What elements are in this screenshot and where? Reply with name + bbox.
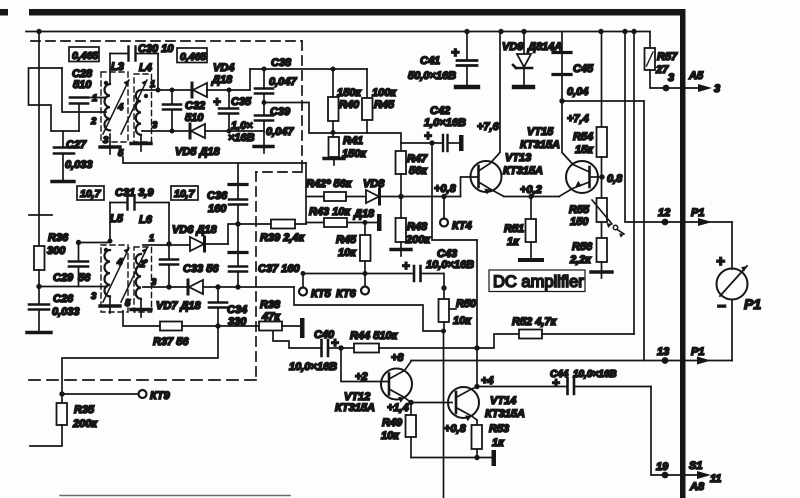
svg-text:27: 27 (655, 64, 669, 76)
wire: C42 to base net (431, 143, 433, 197)
svg-text:+: + (213, 94, 221, 109)
svg-text:10,0×16В: 10,0×16В (289, 361, 337, 373)
capacitor C27 (52, 131, 74, 182)
border: left edge stub (0, 9, 8, 16)
terminal КТ5 (302, 274, 304, 288)
ground R41 (324, 157, 344, 160)
svg-text:R52 4,7к: R52 4,7к (512, 316, 558, 328)
transistor VT15 (559, 101, 600, 197)
dashed block outline 0,465 top (31, 40, 302, 42)
svg-text:R45: R45 (336, 234, 357, 246)
tuning arrow L4 (121, 80, 147, 134)
node: C40/R44 dot (338, 345, 343, 350)
svg-text:R54: R54 (573, 131, 593, 143)
svg-text:10,7: 10,7 (80, 188, 102, 200)
svg-text:+: + (331, 335, 339, 350)
svg-text:КТ315А: КТ315А (503, 165, 543, 177)
transistor VT13 (461, 32, 505, 197)
ground R51 (520, 258, 542, 262)
svg-text:4: 4 (116, 257, 123, 268)
ground L5 (109, 298, 111, 305)
svg-text:10,0×16В: 10,0×16В (573, 369, 617, 380)
svg-text:VT13: VT13 (505, 152, 531, 164)
wire: +0,2 net (504, 196, 559, 198)
svg-text:0,033: 0,033 (65, 159, 93, 171)
node: C38 top dot (262, 67, 267, 72)
svg-text:0,465: 0,465 (180, 51, 206, 63)
svg-text:3: 3 (152, 120, 158, 131)
node: L6 phase dot (144, 259, 148, 263)
svg-text:1: 1 (92, 93, 97, 104)
resistor R44 (341, 344, 477, 353)
svg-text:−: − (717, 298, 726, 315)
svg-text:50,0×16В: 50,0×16В (408, 70, 456, 82)
resistor R57 (645, 32, 703, 89)
svg-text:R42* 56к: R42* 56к (306, 178, 353, 190)
resistor R48 (396, 197, 407, 250)
node: rail junction dots (36, 29, 636, 34)
node: pin 19 dot (662, 472, 669, 479)
resistor R43 (306, 218, 377, 227)
terminal КТ4 (443, 197, 445, 219)
svg-text:L4: L4 (139, 62, 152, 74)
terminal bar R43 (377, 214, 382, 231)
ground L4 (140, 135, 142, 142)
svg-text:C39: C39 (270, 106, 291, 118)
svg-text:R57: R57 (657, 51, 678, 63)
resistor R56 (597, 222, 608, 271)
svg-text:56: 56 (78, 272, 91, 284)
svg-text:C27: C27 (66, 139, 87, 151)
svg-text:510: 510 (185, 112, 204, 124)
arrow pin 19 (697, 471, 711, 479)
svg-text:Д18: Д18 (211, 74, 233, 86)
svg-text:R38: R38 (260, 299, 281, 311)
resistor R55 trimmer (592, 198, 624, 238)
node: R47/R48 dot (398, 194, 403, 199)
capacitor C34 (209, 287, 227, 326)
wire: detector out y69 (250, 68, 367, 70)
node: R40 top dot (331, 67, 336, 72)
node: pin 3 dot (663, 85, 670, 92)
capacitor C37 (229, 224, 247, 287)
arrow P1 pin 12 (698, 218, 712, 226)
svg-text:P1: P1 (744, 296, 761, 312)
tuning arrow L5 (103, 248, 129, 302)
svg-text:4: 4 (117, 102, 124, 113)
svg-text:P1: P1 (691, 346, 704, 358)
svg-text:C42: C42 (430, 105, 450, 117)
svg-text:C30 10: C30 10 (138, 43, 174, 55)
resistor R45 upper (362, 69, 373, 133)
svg-text:+7,6: +7,6 (477, 121, 500, 133)
svg-text:КТ4: КТ4 (452, 220, 472, 232)
wire: L jog from base net (432, 197, 477, 241)
resistor R52 (477, 330, 634, 349)
svg-text:3: 3 (103, 135, 109, 146)
transformer L4 dashed box (134, 74, 152, 142)
wire: pin 19 feed (651, 387, 702, 476)
svg-text:12: 12 (658, 207, 670, 219)
ground L6 (140, 300, 142, 308)
svg-text:47к: 47к (261, 311, 281, 323)
svg-text:10к: 10к (381, 430, 400, 442)
node: C36 bottom dot (235, 221, 240, 226)
capacitor C26 (27, 287, 51, 333)
node: C33 top dot (166, 241, 171, 246)
node: C34 top dot (215, 284, 220, 289)
dashed block outline bottom (28, 379, 256, 381)
tuning arrow L3 (103, 80, 129, 134)
node: C29 top dot (76, 240, 81, 245)
svg-text:VD9: VD9 (502, 41, 524, 53)
dashed block outline step (256, 171, 302, 173)
node: R44/C43 net dot (474, 345, 479, 350)
capacitor C33 (160, 244, 178, 287)
svg-text:1к: 1к (492, 437, 505, 449)
diode VD8 (366, 189, 400, 204)
resistor R45 lower (360, 223, 371, 274)
coil L4 winding (136, 90, 141, 135)
svg-text:R35: R35 (74, 404, 95, 416)
svg-text:VD5 Д18: VD5 Д18 (175, 146, 221, 158)
terminal КТ6 (364, 274, 366, 287)
svg-text:КТ9: КТ9 (150, 390, 171, 402)
svg-text:VD6 Д18: VD6 Д18 (172, 224, 218, 236)
svg-text:R50: R50 (456, 298, 477, 310)
resistor R54 (597, 32, 608, 199)
wire: R50 down long vertical (443, 331, 445, 498)
wire: VD6 jog up (228, 224, 306, 244)
svg-text:+2: +2 (355, 371, 368, 383)
node: VD4/C35 dot (227, 88, 232, 93)
terminal bar R38 (300, 318, 305, 338)
diode VD4 (192, 83, 229, 97)
svg-text:×16В: ×16В (228, 132, 255, 144)
svg-text:L5: L5 (110, 213, 124, 225)
svg-text:150: 150 (570, 216, 589, 228)
node: pin 13 dot (662, 357, 669, 364)
node: КТ5 dot (301, 271, 306, 276)
svg-text:0,465: 0,465 (72, 50, 98, 62)
node: R50 top dot (441, 285, 446, 290)
wire: x477 vertical (476, 240, 478, 387)
tuning arrow L6 (121, 248, 147, 302)
resistor R39 (271, 220, 295, 229)
wire: C42 feed y143 (401, 142, 442, 144)
svg-text:R40: R40 (339, 99, 360, 111)
svg-text:5: 5 (125, 298, 131, 309)
node: R45 bottom dot (363, 271, 368, 276)
transistor VT14 (448, 387, 479, 421)
wire: КТ9 feed (62, 326, 218, 394)
svg-text:2,2к: 2,2к (569, 254, 592, 266)
node: pin 12 dot (662, 219, 669, 226)
svg-text:R56: R56 (572, 241, 593, 253)
wire: V2 rail to R52 (633, 32, 635, 335)
svg-text:КТ315А: КТ315А (485, 408, 525, 420)
arrow P1 pin 13 (697, 357, 711, 365)
svg-text:510: 510 (73, 79, 92, 91)
node: КТ4 dot (441, 194, 446, 199)
node: L3 phase dot (104, 81, 108, 85)
transistor VT12 (381, 362, 412, 403)
svg-text:R51: R51 (504, 223, 524, 235)
svg-text:R36: R36 (48, 232, 69, 244)
svg-text:3: 3 (714, 83, 720, 95)
wire: input loop left (29, 68, 80, 131)
svg-text:C36: C36 (207, 190, 228, 202)
svg-text:10к: 10к (453, 315, 472, 327)
svg-text:A5: A5 (688, 70, 704, 82)
node: R53 bottom dot (474, 455, 479, 460)
svg-text:200к: 200к (405, 234, 431, 246)
wire: +4 collector line (477, 386, 554, 388)
wire: V3 +7,4 to pin 13 (643, 101, 645, 361)
wire: top supply rail (26, 31, 650, 33)
svg-text:R39 2,4к: R39 2,4к (260, 232, 306, 244)
svg-text:10к: 10к (338, 247, 357, 259)
wire: V1 rail to pin 12 (625, 32, 732, 223)
svg-text:R43 10к: R43 10к (309, 206, 351, 218)
wire: detector to R50 y305 (294, 287, 443, 331)
resistor R51 (526, 197, 537, 260)
svg-text:+: + (716, 253, 725, 270)
svg-text:3: 3 (91, 291, 97, 302)
border: top thick bar (29, 9, 685, 16)
svg-text:C38: C38 (271, 57, 292, 69)
svg-text:100к: 100к (372, 87, 397, 99)
resistor R41 (329, 133, 340, 158)
label 0,465 box right (177, 48, 207, 63)
wire: R38 tap to C40 (273, 331, 321, 348)
capacitor C42 (443, 135, 459, 151)
svg-text:0,033: 0,033 (52, 306, 80, 318)
svg-text:+0,8: +0,8 (444, 423, 467, 435)
svg-text:1: 1 (150, 79, 155, 90)
svg-text:1,0×16В: 1,0×16В (424, 117, 466, 129)
resistor R36 (34, 246, 45, 286)
svg-text:VD4: VD4 (213, 62, 234, 74)
node: R45 lower top dot (363, 220, 368, 225)
svg-text:+4: +4 (481, 375, 494, 387)
svg-text:160: 160 (208, 203, 227, 215)
svg-text:VT15: VT15 (527, 126, 554, 138)
ground C39 (254, 145, 273, 148)
wire: L3 pin2 (104, 111, 106, 113)
node: C30 right dot (156, 88, 161, 93)
transformer L5 dashed box (101, 245, 128, 312)
capacitor C35 (219, 90, 238, 131)
wire: L5 pin3 input (39, 286, 107, 288)
wire: L3 pin1 (104, 97, 106, 99)
svg-text:0,04: 0,04 (567, 86, 588, 98)
wire: L6 pin1 out (143, 244, 190, 246)
svg-text:C32: C32 (185, 100, 205, 112)
coil L5 winding (104, 250, 110, 296)
dashed block outline right edge lower (255, 172, 257, 380)
capacitor C40 (322, 340, 342, 356)
svg-text:R55: R55 (569, 204, 590, 216)
svg-text:150к: 150к (342, 148, 367, 160)
capacitor C38 (255, 69, 273, 102)
node: VT15 base dot (599, 174, 604, 179)
svg-text:L6: L6 (139, 214, 153, 226)
svg-text:+8: +8 (391, 352, 404, 364)
diode VD9 zener (513, 32, 533, 88)
svg-text:C34: C34 (227, 304, 247, 316)
node: VT14 collector dot (474, 384, 479, 389)
wire: VD4 output up-jog (229, 69, 250, 90)
dashed block outline right edge upper (301, 41, 303, 172)
svg-text:+: + (402, 258, 410, 273)
svg-text:300: 300 (47, 245, 66, 257)
resistor R40 (328, 69, 339, 133)
svg-text:0,047: 0,047 (269, 76, 297, 88)
wire: C28 pin1 link (62, 68, 104, 112)
resistor R42 (306, 192, 366, 201)
node: R35 top dot (59, 391, 64, 396)
svg-text:R44 510к: R44 510к (350, 330, 399, 342)
wire: L6 pin3 out (143, 286, 188, 288)
svg-text:+1,4: +1,4 (387, 402, 409, 414)
node: L5 top dot (108, 239, 113, 244)
svg-text:10,7: 10,7 (174, 188, 196, 200)
wire: +7,4 link (562, 100, 644, 102)
label 10,7 box left (77, 186, 104, 200)
svg-text:1к: 1к (507, 236, 520, 248)
node: R40 bottom dot (331, 130, 336, 135)
svg-text:C33 56: C33 56 (183, 263, 219, 275)
svg-text:19: 19 (656, 461, 669, 473)
svg-text:3: 3 (151, 277, 157, 288)
svg-text:C41: C41 (420, 55, 440, 67)
box DC amplifier (489, 270, 585, 292)
svg-text:VD8: VD8 (363, 178, 385, 190)
svg-text:2: 2 (139, 259, 146, 270)
svg-text:C29: C29 (53, 272, 74, 284)
node: R51 top dot (528, 194, 533, 199)
wire: detector common y163 (123, 157, 306, 163)
svg-text:+7,4: +7,4 (567, 113, 589, 125)
wire: input stub y215 (29, 214, 52, 216)
svg-text:КТ315А: КТ315А (520, 139, 560, 151)
svg-text:R47: R47 (407, 153, 428, 165)
svg-text:C35: C35 (231, 96, 252, 108)
svg-text:11: 11 (710, 473, 721, 485)
svg-text:R49: R49 (382, 417, 403, 429)
arrow A5 (698, 84, 712, 92)
resistor R37 (123, 311, 218, 331)
node: R37/C34/R38 dot (215, 323, 220, 328)
ground bar emitters (492, 450, 497, 466)
svg-text:10,0×16В: 10,0×16В (426, 259, 474, 271)
svg-text:13: 13 (657, 346, 669, 358)
svg-text:+: + (424, 128, 432, 143)
svg-text:Д18: Д18 (353, 208, 375, 220)
node: C33 bottom dot (166, 284, 171, 289)
svg-text:56к: 56к (409, 165, 428, 177)
svg-text:R45: R45 (374, 99, 395, 111)
label 10,7 box right (171, 186, 198, 200)
capacitor C45 (553, 32, 571, 102)
svg-text:C26: C26 (53, 293, 74, 305)
svg-text:0,8: 0,8 (607, 173, 623, 185)
wire: C29 top link (79, 242, 111, 244)
ground L3 (109, 134, 111, 146)
svg-text:R48: R48 (407, 221, 428, 233)
coil L3 winding (105, 84, 111, 130)
resistor R50 (439, 288, 457, 331)
svg-text:R53: R53 (489, 423, 509, 435)
node: L4 phase dot (144, 94, 148, 98)
ground R48 (391, 248, 411, 251)
wire: VT12 to VT14 base (411, 402, 452, 404)
wire: L4 pin1 to VD4 (142, 89, 190, 91)
wire: VD5 output to C39 (229, 130, 264, 132)
diode VD6 (190, 237, 228, 251)
wire: C43 feed y273 (303, 273, 414, 275)
svg-text:КТ6: КТ6 (336, 288, 357, 300)
svg-text:VD7 Д18: VD7 Д18 (156, 300, 202, 312)
border: right thick vertical (680, 9, 686, 498)
resistor R53 (472, 420, 483, 458)
capacitor C28 (70, 98, 104, 132)
wire: emitter ground bus (411, 457, 491, 459)
capacitor C43 (414, 266, 444, 288)
wire: left vertical bus x39 (38, 32, 40, 247)
wire: L4 pin3 to VD5 (142, 130, 188, 132)
diode VD7 (188, 280, 294, 294)
capacitor C29 (69, 243, 88, 287)
transformer L3 dashed box (101, 72, 128, 142)
resistor R49 (406, 403, 417, 458)
wire: base net y196 (400, 196, 461, 198)
bottom faint scan line (60, 495, 290, 497)
svg-text:200к: 200к (72, 418, 98, 430)
svg-text:C37 160: C37 160 (258, 263, 300, 275)
svg-text:R41: R41 (343, 135, 363, 147)
node: C45 bottom dot (559, 98, 564, 103)
node: R50 bottom junction (441, 329, 446, 334)
svg-text:P1: P1 (691, 207, 704, 219)
wire: VT12 base feed (341, 348, 388, 382)
svg-text:15к: 15к (575, 144, 594, 156)
transformer L6 dashed box (134, 247, 152, 312)
capacitor C44 (554, 378, 651, 394)
svg-text:150к: 150к (337, 87, 362, 99)
capacitor C31 (110, 196, 169, 245)
capacitor C32 (163, 90, 181, 131)
wire: long bus y360 to meter (411, 360, 732, 362)
svg-text:1: 1 (149, 233, 154, 244)
svg-text:2: 2 (90, 116, 97, 127)
svg-text:КТ5: КТ5 (311, 288, 332, 300)
capacitor C36 (229, 164, 247, 224)
svg-text:C31 3,9: C31 3,9 (115, 187, 154, 199)
wire: mid tap y103 to R47 (264, 103, 401, 152)
resistor R38 (218, 322, 300, 331)
node: C42 left dot (429, 140, 434, 145)
svg-text:0,047: 0,047 (266, 126, 294, 138)
svg-text:C44: C44 (550, 369, 569, 380)
ground R56 (591, 270, 612, 273)
node: R36 bottom dot (36, 284, 41, 289)
capacitor C41 (456, 32, 478, 88)
meter P1 (717, 222, 748, 361)
svg-text:VT14: VT14 (490, 395, 516, 407)
diode VD5 (190, 124, 229, 138)
